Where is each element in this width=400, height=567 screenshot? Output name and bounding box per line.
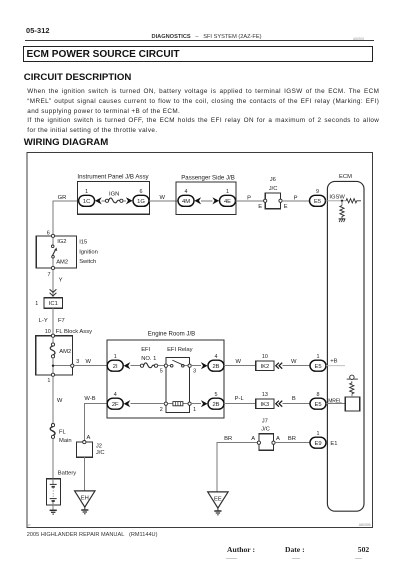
wire fuse to relay (158, 365, 165, 367)
svg-text:4M: 4M (182, 199, 190, 205)
connector arrow (into 2B bottom) (201, 400, 208, 407)
svg-text:Battery: Battery (58, 470, 76, 476)
wire GR (corner to 1C) (53, 195, 79, 234)
relay coil (168, 402, 189, 406)
IGSW terminal label (329, 194, 345, 200)
relay contact (168, 360, 189, 367)
connector IC1 pin 1 (35, 298, 62, 308)
svg-text:W: W (57, 398, 63, 404)
FL block assy labels (45, 329, 92, 335)
svg-text:EFI: EFI (141, 347, 150, 353)
page number top-left (26, 26, 50, 35)
svg-text:J7: J7 (262, 418, 268, 424)
svg-text:F7: F7 (58, 318, 65, 324)
svg-text:IK3: IK3 (261, 402, 270, 408)
connector IK3 pin 13 (256, 392, 274, 409)
MREL terminal label (328, 398, 342, 404)
svg-text:AM2: AM2 (56, 260, 68, 266)
resistor (horizontal, IGSW) (346, 199, 361, 203)
faint scan dashes bottom (226, 557, 237, 560)
junction connector J6 J/C (258, 177, 288, 210)
svg-text:2: 2 (160, 407, 163, 413)
wire W (2B to IK2) (224, 359, 256, 366)
svg-text:E: E (284, 204, 288, 210)
fuse EFI NO. 1 (140, 347, 157, 367)
svg-text:E: E (258, 204, 262, 210)
svg-text:A: A (276, 436, 280, 442)
svg-text:FL Block Assy: FL Block Assy (56, 329, 92, 335)
connector arrow (into 2F) (124, 400, 131, 407)
ECM box (327, 174, 364, 511)
connector arrow (into 2B top) (201, 362, 208, 369)
FL block assy box (36, 336, 73, 375)
node 7 (switch bottom terminal) (48, 266, 55, 278)
svg-text:1: 1 (85, 189, 88, 195)
svg-text:1: 1 (317, 431, 320, 437)
svg-text:4: 4 (215, 354, 218, 360)
relay pin 5 (160, 364, 168, 375)
connector E5 pin 9 (IGSW) (310, 189, 326, 206)
svg-text:J/C: J/C (269, 186, 278, 192)
svg-text:1: 1 (317, 354, 320, 360)
wire W (FL block to FL Main) (53, 376, 63, 423)
connector 4M pin 4 (178, 189, 194, 206)
svg-text:L-Y: L-Y (39, 318, 48, 324)
svg-text:2I: 2I (113, 364, 118, 370)
svg-text:2B: 2B (212, 364, 219, 370)
battery (46, 470, 76, 509)
svg-text:J/C: J/C (261, 427, 270, 433)
wire and junction inside FL block (52, 358, 71, 373)
junction connector J2 J/C (76, 435, 104, 457)
wire down to resistor (341, 201, 343, 206)
svg-text:Main: Main (59, 438, 72, 444)
wire relay pin 1 to arrow (191, 403, 201, 405)
node 3 (FL block right terminal) (71, 359, 79, 367)
title box (23, 46, 373, 61)
ground EE (208, 492, 228, 515)
svg-text:3: 3 (76, 359, 79, 365)
wire P-L (2B to IK3) (224, 396, 256, 404)
svg-text:5: 5 (160, 369, 163, 375)
tiny doc code right of header (353, 37, 364, 41)
resistor (vertical, to ground) (340, 206, 344, 219)
svg-text:1G: 1G (137, 199, 145, 205)
svg-text:E5: E5 (314, 199, 321, 205)
svg-text:J6: J6 (270, 177, 276, 183)
switch contacts and blade (51, 238, 57, 267)
wire (FL Main to battery) (52, 439, 54, 479)
ignition switch I15 box (36, 236, 76, 268)
svg-text:IG2: IG2 (57, 239, 66, 245)
svg-text:4: 4 (185, 189, 188, 195)
Engine Room J/B box (107, 331, 224, 419)
node (IGSW junction) (341, 200, 343, 202)
in-line chevrons after IK2 (276, 363, 282, 369)
svg-text:AM2: AM2 (59, 349, 71, 355)
svg-text:P: P (247, 195, 251, 201)
Instrument Panel J/B Assy box (77, 173, 149, 214)
svg-text:J2: J2 (96, 443, 102, 449)
relay pin 3 (188, 364, 196, 375)
relay pin 2 (160, 402, 168, 413)
svg-text:A: A (251, 436, 255, 442)
svg-text:Engine Room J/B: Engine Room J/B (148, 331, 195, 338)
connector 2B pin 4 (208, 354, 224, 371)
wire W (1G to 4M) (149, 195, 178, 201)
header rule (25, 40, 374, 41)
MREL driver box (ECM internal) (345, 397, 360, 411)
svg-text:2F: 2F (112, 402, 119, 408)
svg-text:P: P (294, 195, 298, 201)
svg-text:+B: +B (330, 358, 337, 364)
I15 ignition switch label (79, 240, 98, 265)
wire W (FL block to 2I) (74, 359, 107, 366)
svg-text:W: W (236, 359, 242, 365)
svg-text:Ignition: Ignition (79, 249, 98, 255)
connector arrow (into 1G) (126, 197, 133, 204)
section heading 2 (24, 137, 108, 148)
fuse IGN (105, 191, 123, 202)
wire MREL to driver (326, 403, 345, 405)
svg-text:E9: E9 (314, 441, 321, 447)
svg-text:NO. 1: NO. 1 (141, 356, 156, 362)
svg-text:E1: E1 (330, 441, 337, 447)
connector 2F pin 4 (107, 392, 123, 409)
svg-text:7: 7 (48, 272, 51, 278)
svg-text:1: 1 (193, 407, 196, 413)
svg-text:1: 1 (226, 189, 229, 195)
svg-text:4E: 4E (224, 199, 231, 205)
fusible link AM2 (50, 337, 71, 358)
wire W (IK2 to E5) (283, 359, 311, 366)
svg-text:Y: Y (59, 277, 63, 283)
svg-text:4: 4 (114, 392, 117, 398)
svg-text:EH: EH (81, 495, 89, 501)
svg-text:IK2: IK2 (261, 364, 270, 370)
wire fuse to arrow (123, 200, 126, 202)
header center text (152, 34, 262, 40)
wire inside ECM from IGSW (326, 200, 347, 202)
svg-text:ECM: ECM (339, 174, 352, 180)
connector arrow (into 4E) (212, 197, 219, 204)
connector arrow (into 2I) (124, 362, 131, 369)
relay pin 1 (188, 402, 196, 413)
wire to fuse EFI NO.1 (130, 365, 140, 367)
connector arrow (into 1C) (95, 197, 102, 204)
wire between arrows (201, 200, 212, 202)
svg-text:IGSW: IGSW (329, 194, 345, 200)
in-line chevrons after IK3 (276, 401, 282, 407)
chassis ground (ECM internal) (339, 219, 346, 222)
svg-text:EFI Relay: EFI Relay (167, 347, 193, 353)
connector arrow (into 4M) (194, 197, 201, 204)
svg-text:E5: E5 (314, 402, 321, 408)
wire B (IK3 to E5) (283, 396, 311, 404)
connector E9 pin 1 (310, 431, 326, 448)
svg-text:B: B (292, 396, 296, 402)
wire Y (switch to IC1) (53, 270, 63, 298)
wire J2 to EH (83, 457, 85, 491)
wire to fuse IGN (102, 200, 106, 202)
svg-text:BR: BR (288, 436, 296, 442)
svg-text:Instrument Panel J/B Assy: Instrument Panel J/B Assy (77, 173, 149, 180)
svg-text:6: 6 (140, 189, 143, 195)
wire 2F arrow to relay pin 2 (130, 403, 164, 405)
svg-text:9: 9 (316, 189, 319, 195)
diagram frame (27, 153, 372, 528)
+B terminal label and internal wire (326, 358, 345, 365)
connector 4E pin 1 (220, 189, 236, 206)
wire L-Y (IC1 to FL block) (39, 308, 65, 334)
wire P (4E to J6) (236, 195, 266, 201)
wire BR (J7 to E9) (275, 436, 310, 443)
connector 1G pin 6 (133, 189, 149, 206)
fusible link FL Main (50, 424, 71, 444)
connector 2I pin 1 (107, 354, 123, 371)
chassis ground (battery) (50, 510, 57, 514)
svg-text:1C: 1C (83, 199, 90, 205)
svg-text:E5: E5 (314, 364, 321, 370)
svg-text:A: A (86, 435, 90, 441)
svg-text:2B: 2B (212, 402, 219, 408)
svg-text:IC1: IC1 (49, 301, 58, 307)
svg-text:1: 1 (47, 378, 50, 384)
svg-text:1: 1 (35, 301, 38, 307)
svg-text:EE: EE (214, 496, 222, 502)
body text (27, 87, 379, 135)
node 6 (switch top terminal) (47, 230, 55, 237)
svg-text:1: 1 (114, 354, 117, 360)
wire P (J6 to E5) (282, 195, 309, 201)
svg-text:J/C: J/C (96, 450, 105, 456)
connector 2B pin 5 (208, 392, 224, 409)
wire BR (corner to J7) (217, 436, 257, 492)
svg-text:BR: BR (224, 436, 232, 442)
svg-text:10: 10 (45, 329, 51, 335)
svg-text:6: 6 (47, 230, 50, 236)
svg-text:8: 8 (317, 392, 320, 398)
connector IK2 pin 10 (256, 354, 274, 371)
svg-text:W: W (160, 195, 166, 201)
svg-text:10: 10 (262, 354, 268, 360)
connector E5 pin 1 (+B) (310, 354, 326, 371)
junction connector J7 J/C (257, 418, 275, 450)
svg-text:I15: I15 (79, 240, 87, 246)
footer author/date (227, 545, 255, 554)
footer manual line (27, 532, 158, 538)
svg-text:GR: GR (58, 195, 67, 201)
resistor (vertical, MREL pull-up) (350, 381, 354, 393)
Passenger Side J/B box (176, 174, 236, 214)
node 10 (FL block top terminal) (51, 334, 54, 337)
svg-text:W-B: W-B (84, 396, 95, 402)
diagram code label A80305 (28, 523, 370, 527)
connector 1C pin 1 (79, 189, 95, 206)
wire W-B (corner to 2F) (84, 396, 107, 440)
svg-text:P-L: P-L (235, 396, 245, 402)
wire relay to arrow (top) (191, 365, 201, 367)
in-line connector chevrons above IC1 (50, 289, 57, 296)
svg-text:FL: FL (59, 429, 67, 435)
node 1 (FL block bottom terminal) (47, 373, 54, 384)
E1 terminal label (330, 441, 337, 447)
svg-text:A80305: A80305 (359, 523, 371, 527)
svg-text:5: 5 (215, 392, 218, 398)
svg-text:W: W (86, 359, 92, 365)
wire driver to resistor (351, 394, 353, 397)
connector E5 pin 8 (MREL) (310, 392, 326, 409)
svg-text:Passenger Side J/B: Passenger Side J/B (181, 174, 235, 181)
svg-text:P: P (28, 523, 31, 527)
B+ line symbol (circle on bar) (347, 375, 358, 379)
svg-text:IGN: IGN (109, 191, 119, 197)
section heading (24, 72, 131, 83)
EFI relay box (166, 347, 193, 412)
svg-text:Switch: Switch (79, 259, 96, 265)
svg-text:W: W (291, 359, 297, 365)
ground EH (75, 491, 95, 514)
svg-text:3: 3 (193, 369, 196, 375)
svg-text:13: 13 (262, 392, 268, 398)
